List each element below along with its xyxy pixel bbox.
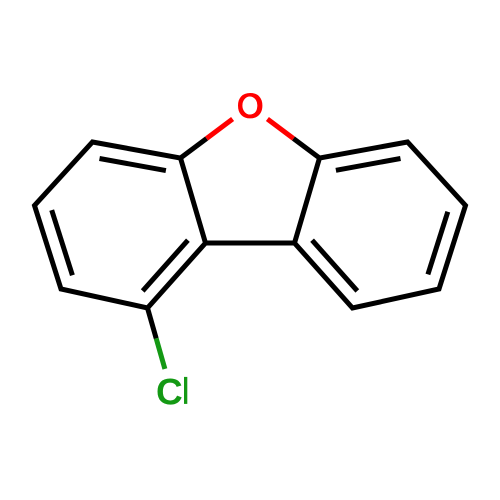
bond O-C(right) black half	[293, 139, 319, 159]
bond O-C(left) red half	[207, 119, 233, 139]
bond C1-Cl black half	[148, 308, 157, 338]
double bond inner line C9a-C9 (right lower)	[312, 240, 357, 291]
atom label Cl letter l	[184, 377, 187, 404]
double bond inner line C5a-C6 (right top)	[336, 159, 401, 171]
bond C1-Cl green half	[156, 338, 165, 369]
right benzene ring outline	[295, 142, 466, 308]
bond O-C(left) black half	[181, 139, 207, 159]
atom label O	[238, 93, 262, 118]
double bond inner line C1-C9b (left lower right)	[143, 240, 188, 291]
bond O-C(right) red half	[267, 119, 293, 139]
double bond inner line C7-C8 (right side)	[428, 212, 448, 275]
central C-C bond (furan bottom)	[206, 241, 295, 246]
double bond inner line C9-C9a (left top)	[100, 159, 166, 171]
left benzene ring outline	[35, 142, 206, 308]
atom label Cl letter C	[158, 378, 182, 404]
double bond inner line C2-C3 (left side)	[52, 210, 73, 275]
atom label O counter	[242, 97, 257, 115]
